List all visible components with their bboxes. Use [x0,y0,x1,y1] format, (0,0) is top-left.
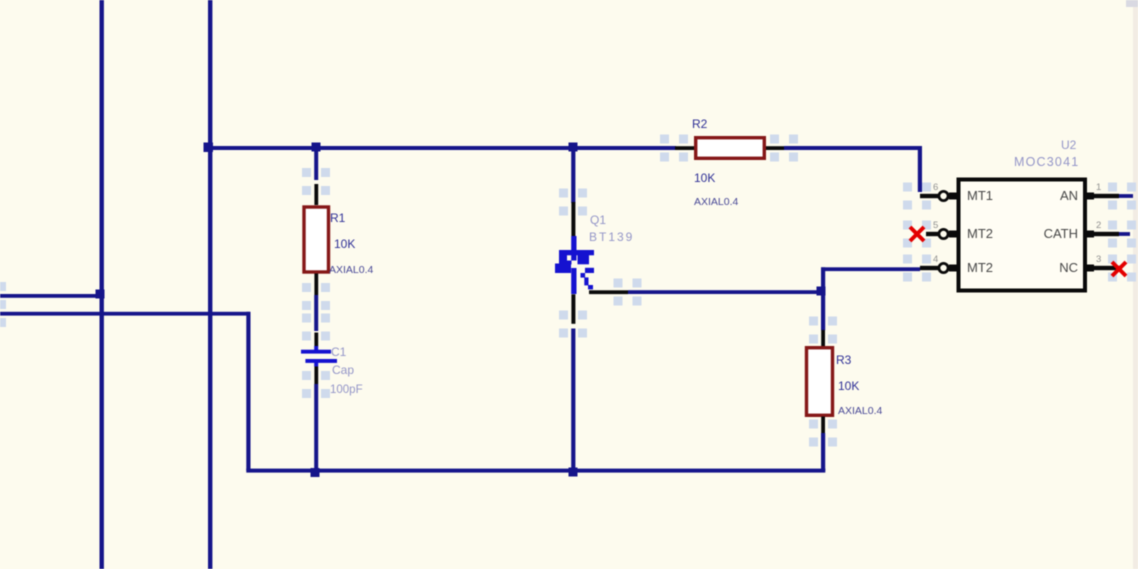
resistor R1 body [304,207,329,272]
svg-text:MT1: MT1 [967,188,993,203]
svg-text:R2: R2 [692,117,708,131]
wire: drop to optocoupler pin 6 [918,146,922,192]
wire: feed corner drop [246,312,250,471]
svg-text:10K: 10K [334,237,355,251]
sheet edge strip [1133,0,1138,569]
wire: R1 to C1 [314,295,318,331]
opto U2 pin 3 [1085,266,1122,270]
svg-text:U2: U2 [1061,138,1077,152]
junction dot triac branch at bottom bus [569,468,578,477]
wire: gate node riser [821,267,825,330]
wire: left AC line vertical 1 [100,0,104,569]
opto U2 pin 5 [926,232,957,236]
svg-text:R1: R1 [330,211,346,225]
wire: R1 branch upper [314,148,318,180]
wire stub [1119,232,1130,236]
wire: top bus [208,146,676,150]
resistor R2 body [696,138,765,159]
svg-text:100pF: 100pF [330,384,363,396]
svg-text:MOC3041: MOC3041 [1014,155,1079,169]
junction dot at wire/vertical-1 [96,290,105,299]
resistor R3 pin top [821,330,825,346]
svg-text:10K: 10K [838,379,859,393]
capacitor C1 pin bottom [314,367,318,385]
wire stub [1119,194,1133,198]
wire: R3 to bottom bus [821,433,825,471]
svg-text:1: 1 [1096,182,1101,193]
wire: bottom bus [246,469,825,473]
opto-triac U2 body [959,180,1086,291]
triac Q1 pin bottom [571,294,575,324]
junction dot top bus at R1 branch [312,143,321,152]
junction dot top bus at vertical 2 [204,143,214,153]
resistor R1 pin bottom [314,274,318,296]
svg-text:C1: C1 [331,345,347,359]
wire: horizontal stub into vertical 1 [0,294,103,298]
wire: triac branch upper [571,148,575,203]
wire: left AC line vertical 2 [208,0,212,569]
capacitor C1 top plate [301,350,331,354]
triac Q1 gate pin [589,290,628,294]
wire: C1 to bottom bus [314,384,318,471]
svg-text:AXIAL0.4: AXIAL0.4 [838,405,883,417]
opto U2 pin 6 [920,194,957,198]
svg-text:Cap: Cap [332,363,354,377]
opto U2 pin 4 [920,266,957,270]
svg-text:BT139: BT139 [589,230,634,244]
opto U2 pin 1 [1085,194,1119,198]
resistor R3 pin bottom [821,417,825,434]
no-ERC marker on U2 pin 3 [1112,262,1126,276]
capacitor C1 bottom plate [305,359,337,363]
triac Q1 symbol [555,236,594,294]
svg-text:AXIAL0.4: AXIAL0.4 [694,196,739,208]
wire: gate horizontal [628,290,823,294]
svg-text:CATH: CATH [1044,226,1078,241]
svg-text:MT2: MT2 [967,226,993,241]
junction dot top bus at triac branch [569,143,578,152]
resistor R2 pin right [766,146,784,150]
resistor R3 body [807,348,833,416]
junction dot gate node [817,287,826,296]
svg-text:AN: AN [1060,188,1078,203]
junction dot C1 branch at bottom bus [311,468,320,477]
wire: triac to bottom bus [571,329,575,471]
wire: long horizontal feed [0,312,250,316]
svg-text:6: 6 [933,182,938,193]
no-ERC marker on U2 pin 5 [910,227,924,241]
triac Q1 pin top [571,202,575,236]
svg-text:R3: R3 [836,353,852,367]
svg-text:4: 4 [933,254,938,265]
pin hotspot markers [0,135,1136,447]
resistor R1 pin top [314,184,318,205]
svg-text:Q1: Q1 [590,213,606,227]
wire: gate node to optocoupler MT2 [821,267,920,271]
svg-text:2: 2 [1096,220,1101,231]
resistor R2 pin left [675,146,695,150]
svg-text:5: 5 [933,220,938,231]
svg-text:3: 3 [1096,254,1101,265]
svg-text:MT2: MT2 [967,260,993,275]
svg-text:AXIAL0.4: AXIAL0.4 [329,264,374,276]
opto U2 pin 2 [1085,232,1119,236]
wire: top bus right of R2 [784,146,921,150]
svg-text:10K: 10K [694,171,715,185]
capacitor C1 pin top [314,333,318,347]
capacitor C1 top stub [314,346,318,351]
svg-text:NC: NC [1059,260,1078,275]
capacitor C1 bottom stub [314,363,318,367]
